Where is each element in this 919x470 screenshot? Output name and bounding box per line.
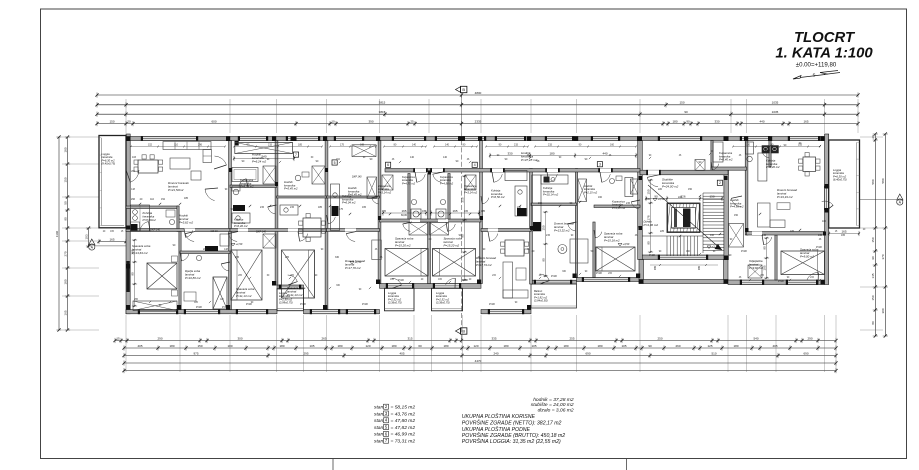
unit2 bed 1 — [147, 263, 177, 289]
svg-text:150: 150 — [709, 194, 714, 198]
unit wall x326 — [325, 141, 328, 310]
svg-text:4: 4 — [474, 163, 476, 167]
stairs landing line — [642, 235, 703, 237]
svg-text:B: B — [462, 87, 465, 92]
unit5b sofa — [503, 262, 513, 298]
svg-text:105: 105 — [798, 143, 803, 146]
svg-text:P=10,80 m2: P=10,80 m2 — [185, 276, 201, 280]
top dimension row 2 — [97, 104, 858, 106]
svg-text:225: 225 — [660, 230, 665, 233]
flag 6 — [386, 162, 391, 167]
X block near stairwell — [631, 179, 638, 194]
bedroom zone wall y228 unit2 — [126, 229, 230, 232]
svg-text:P=4,85 m2: P=4,85 m2 — [730, 205, 744, 209]
svg-text:P=90: P=90 — [741, 250, 747, 253]
flag 3 — [597, 162, 602, 167]
bedroom zone wall y228 unit4b — [327, 229, 380, 232]
svg-text:215: 215 — [290, 206, 295, 209]
elevator shaft — [667, 203, 700, 233]
svg-text:215: 215 — [268, 143, 273, 146]
outer wall top — [126, 137, 825, 141]
svg-text:220: 220 — [658, 188, 663, 191]
wardrobe X unit7 top — [235, 142, 293, 153]
svg-text:P=6,46 m2: P=6,46 m2 — [234, 224, 248, 228]
svg-text:185: 185 — [318, 206, 323, 209]
unit4 bathroom wall — [277, 196, 327, 198]
bottom wall segment 481-531 — [481, 310, 531, 314]
unit4b dining table — [303, 218, 321, 237]
svg-text:185: 185 — [481, 210, 486, 213]
svg-text:180: 180 — [63, 279, 67, 284]
svg-text:3815: 3815 — [379, 101, 386, 105]
svg-text:P=90: P=90 — [300, 303, 306, 306]
loggia 2 (unit5) — [385, 288, 415, 311]
svg-text:180: 180 — [443, 344, 448, 348]
stairs diagonal line — [648, 185, 722, 250]
unit3 bed — [231, 250, 262, 300]
svg-text:P=3,06 m2: P=3,06 m2 — [644, 223, 659, 227]
svg-text:180: 180 — [227, 344, 232, 348]
svg-text:180: 180 — [337, 344, 342, 348]
svg-text:185: 185 — [184, 197, 189, 200]
svg-text:120: 120 — [365, 344, 370, 348]
svg-text:POVRŠINE ZGRADE (BRUTTO): 450: POVRŠINE ZGRADE (BRUTTO): 450,18 m2 — [462, 432, 566, 439]
unit6m bed — [433, 249, 476, 277]
svg-text:stan: stan — [374, 439, 384, 445]
svg-text:TLOCRT: TLOCRT — [794, 30, 856, 46]
svg-text:180: 180 — [279, 344, 284, 348]
unit2 loggia door — [130, 170, 139, 182]
bedroom zone wall y228 unit3-4 — [230, 229, 327, 232]
svg-text:270: 270 — [63, 251, 67, 256]
svg-text:330: 330 — [507, 151, 512, 155]
svg-text:215: 215 — [260, 206, 265, 209]
units5-6 bedroom doors — [403, 224, 411, 231]
left inner dim loggia — [88, 228, 90, 246]
svg-text:90: 90 — [541, 258, 545, 262]
svg-text:P=15,20 m2: P=15,20 m2 — [444, 243, 460, 247]
flag 2 — [717, 180, 722, 185]
svg-text:P=6,26 m2: P=6,26 m2 — [766, 165, 780, 169]
north arrow — [793, 76, 801, 80]
mini vertical dim right of balkon — [545, 212, 547, 276]
svg-text:152: 152 — [148, 143, 153, 146]
svg-text:P=11,13 m2: P=11,13 m2 — [287, 293, 303, 297]
unit6 bathroom wall — [594, 205, 640, 208]
unit5b bedroom wall — [481, 229, 531, 232]
svg-text:= 58,15 m2: = 58,15 m2 — [391, 405, 416, 411]
partition x776 — [775, 235, 777, 280]
svg-text:20: 20 — [127, 119, 131, 123]
svg-text:P=90: P=90 — [196, 306, 202, 309]
svg-text:60: 60 — [418, 344, 422, 348]
bottom wall units5-6 high — [380, 284, 482, 289]
bottom dimension row 4 total 4470 — [124, 362, 836, 364]
flag 4 — [472, 162, 477, 167]
svg-text:296: 296 — [131, 198, 136, 201]
svg-text:P=90: P=90 — [778, 280, 784, 283]
svg-text:OKP 140: OKP 140 — [150, 229, 161, 232]
corridor doors — [417, 174, 426, 182]
unit6 circle symbol — [558, 245, 567, 254]
svg-text:+3,50: +3,50 — [658, 197, 665, 201]
svg-text:975: 975 — [193, 351, 198, 355]
svg-text:405: 405 — [137, 344, 142, 348]
svg-text:P=4,28 m2: P=4,28 m2 — [612, 206, 626, 210]
svg-text:150: 150 — [646, 189, 650, 194]
svg-text:295: 295 — [303, 351, 308, 355]
axis flag A left — [89, 239, 95, 245]
svg-text:215: 215 — [548, 143, 553, 146]
unit6m shower — [465, 175, 476, 190]
svg-text:150: 150 — [746, 143, 751, 146]
corridor south wall — [385, 169, 640, 173]
unit4b closet X vertical — [367, 177, 377, 199]
svg-text:215: 215 — [514, 143, 519, 146]
svg-text:370: 370 — [881, 254, 885, 259]
stair hall bottom wall — [639, 255, 728, 260]
unit5 shower — [382, 175, 393, 190]
unit2 wardrobe low — [133, 301, 177, 311]
svg-text:P=17,70 m2: P=17,70 m2 — [345, 266, 361, 270]
svg-text:180: 180 — [63, 147, 67, 152]
svg-text:±0.00=+119,80: ±0.00=+119,80 — [796, 62, 837, 69]
svg-text:2: 2 — [719, 181, 721, 185]
svg-text:P=4,79 m2: P=4,79 m2 — [240, 185, 254, 189]
svg-text:= 43,76 m2: = 43,76 m2 — [391, 411, 416, 417]
unit2 kitchen counter — [131, 205, 150, 231]
partition x594 — [593, 222, 595, 278]
mini dim corridor — [490, 155, 636, 157]
flag 5 — [332, 160, 337, 165]
stairwell top wall — [640, 170, 728, 175]
partition x770 top — [769, 141, 771, 168]
unit6 hall closet X — [578, 179, 587, 202]
svg-text:P=9,60 m2: P=9,60 m2 — [749, 266, 763, 270]
svg-text:335: 335 — [491, 336, 496, 340]
svg-text:= 73,31 m2: = 73,31 m2 — [391, 439, 416, 445]
svg-text:P=9,00 m2: P=9,00 m2 — [800, 254, 814, 258]
svg-text:180: 180 — [597, 344, 602, 348]
svg-text:90: 90 — [130, 272, 134, 276]
svg-text:540: 540 — [753, 336, 758, 340]
right dimension column outer — [884, 134, 886, 336]
right unit doors — [731, 198, 741, 207]
unit2 dining table — [138, 160, 158, 173]
svg-text:150: 150 — [541, 225, 545, 230]
unit2 sofa — [163, 142, 211, 150]
svg-text:185: 185 — [298, 143, 303, 146]
unit2 bathroom — [180, 251, 230, 254]
svg-text:180: 180 — [169, 344, 174, 348]
left dimension column segments — [67, 137, 69, 330]
svg-text:405: 405 — [772, 344, 777, 348]
svg-text:3815: 3815 — [379, 110, 386, 114]
bottom dimension row 2 segments — [124, 347, 836, 349]
svg-text:90: 90 — [871, 256, 875, 260]
svg-text:226: 226 — [680, 194, 685, 198]
svg-text:180: 180 — [503, 344, 508, 348]
svg-text:165: 165 — [841, 234, 846, 237]
svg-text:105: 105 — [790, 230, 795, 233]
svg-text:10: 10 — [331, 119, 335, 123]
right unit bath fixtures — [746, 142, 754, 154]
svg-text:160: 160 — [610, 143, 615, 146]
svg-text:110: 110 — [174, 143, 178, 146]
svg-text:175: 175 — [339, 208, 344, 211]
svg-text:DKP 140: DKP 140 — [256, 231, 267, 234]
right unit kitchen — [762, 145, 770, 153]
unit3 bath tub — [232, 168, 258, 182]
svg-text:265: 265 — [321, 336, 326, 340]
svg-text:90: 90 — [63, 217, 67, 221]
svg-text:stan: stan — [374, 405, 384, 411]
svg-text:stan: stan — [374, 425, 384, 431]
hall closet X — [729, 224, 744, 248]
unit3 doors — [239, 179, 246, 187]
unit3 bathroom wall — [230, 185, 277, 188]
svg-text:150: 150 — [63, 177, 67, 182]
svg-text:150: 150 — [109, 119, 114, 123]
right unit bed — [781, 251, 825, 275]
bottom dimension row 5 — [124, 370, 836, 372]
right unit living divider y231-235 — [747, 232, 825, 236]
units5-6 bathroom walls — [408, 174, 410, 220]
unit4b kitchen counter — [331, 184, 340, 231]
svg-text:105: 105 — [309, 344, 314, 348]
svg-text:P=24,00 m2: P=24,00 m2 — [662, 185, 679, 189]
elevator car — [672, 208, 696, 229]
level +3,50 mid — [618, 243, 622, 246]
mini dim row under top wall — [131, 146, 225, 148]
extension lines right — [860, 136, 883, 138]
svg-text:165: 165 — [803, 119, 808, 123]
svg-text:3: 3 — [599, 163, 601, 167]
stair door — [647, 177, 658, 187]
svg-text:215: 215 — [626, 202, 631, 205]
svg-text:(3,99x0,75): (3,99x0,75) — [279, 301, 293, 305]
svg-text:P=8,06m2: P=8,06m2 — [143, 218, 157, 222]
unit4 wc sink — [295, 175, 301, 181]
unit wall x531 — [530, 169, 533, 285]
svg-text:205: 205 — [235, 256, 240, 259]
hall wall x746 — [745, 141, 748, 236]
bottom wall above balkon — [531, 280, 577, 284]
svg-text:105: 105 — [531, 344, 536, 348]
unit2 bedroom divider x180 — [179, 232, 181, 310]
svg-text:1. KATA 1:100: 1. KATA 1:100 — [775, 46, 873, 62]
bottom wall above loggia1 — [277, 285, 304, 289]
bottom wall segment 576-640 — [577, 278, 641, 282]
svg-text:P=5,40 m2: P=5,40 m2 — [719, 158, 733, 162]
outer wall left — [126, 134, 130, 314]
unit5 bed — [385, 249, 428, 277]
svg-text:300: 300 — [237, 336, 242, 340]
unit6 bath tub — [625, 178, 633, 197]
svg-text:80,80: 80,80 — [401, 214, 408, 217]
svg-text:160: 160 — [598, 196, 603, 199]
svg-text:180: 180 — [563, 344, 568, 348]
units5-6 bedroom wall y219 — [380, 219, 482, 222]
svg-text:90: 90 — [648, 344, 652, 348]
svg-text:POVRŠINE ZGRADE (NETTO): 3: POVRŠINE ZGRADE (NETTO): 382,17 m2 — [462, 420, 562, 427]
unit2 kitchen stove dark — [131, 224, 138, 231]
loggia 1 (unit4) — [277, 289, 304, 311]
svg-text:20: 20 — [871, 135, 875, 139]
unit2 desk djecja — [184, 292, 196, 301]
svg-text:205: 205 — [130, 249, 134, 254]
stairwell wall left x640 — [638, 141, 643, 260]
top dimension row 1 total 4800 — [97, 94, 858, 96]
unit4b level mark — [350, 261, 354, 264]
mini dim under right loggia — [829, 233, 859, 235]
title block column ticks — [332, 459, 334, 470]
unit6 table — [570, 239, 588, 263]
svg-text:150: 150 — [871, 295, 875, 300]
svg-text:90: 90 — [762, 246, 766, 250]
unit wall x379 — [378, 141, 381, 284]
bathroom wall right section — [711, 167, 747, 170]
loggia 3 (unit6) — [432, 288, 463, 311]
svg-text:110: 110 — [150, 198, 154, 201]
svg-text:390: 390 — [368, 119, 373, 123]
svg-text:P=6,50 m2: P=6,50 m2 — [491, 195, 505, 199]
svg-text:580: 580 — [871, 179, 875, 184]
svg-text:165: 165 — [382, 210, 387, 213]
svg-text:POVRŠINA LOGGIA: 31,35 m2: POVRŠINA LOGGIA: 31,35 m2 (22,55 m2) — [462, 438, 561, 445]
bottom wall segment unit2-3 — [126, 310, 277, 314]
svg-text:hodnik = 37,28 m2: hodnik = 37,28 m2 — [533, 397, 574, 403]
unit2 armchair — [191, 171, 201, 180]
svg-text:165: 165 — [362, 206, 367, 209]
svg-text:150: 150 — [679, 101, 684, 105]
svg-text:580: 580 — [881, 178, 885, 183]
svg-text:125: 125 — [707, 344, 712, 348]
top wall windows — [143, 137, 196, 141]
svg-text:690: 690 — [585, 351, 590, 355]
svg-text:905: 905 — [698, 265, 701, 270]
unit3 shower — [263, 166, 276, 184]
unit wall x230 — [229, 141, 232, 310]
unit5b door — [490, 234, 498, 242]
svg-text:90: 90 — [646, 241, 650, 245]
svg-text:165: 165 — [422, 210, 427, 213]
svg-text:P=6,04 m2: P=6,04 m2 — [342, 201, 356, 205]
svg-text:255: 255 — [569, 336, 574, 340]
svg-text:110 10: 110 10 — [210, 230, 218, 233]
svg-text:P=3,14 m2: P=3,14 m2 — [464, 190, 478, 194]
svg-text:150: 150 — [197, 344, 202, 348]
svg-text:165: 165 — [464, 210, 469, 213]
svg-text:P=90: P=90 — [489, 303, 495, 306]
unit5b kitchen counter — [515, 186, 527, 216]
bottom wall right unit — [728, 280, 825, 285]
svg-text:180: 180 — [549, 151, 554, 155]
svg-text:P=2,15 m2: P=2,15 m2 — [584, 190, 598, 194]
svg-text:1035: 1035 — [772, 101, 779, 105]
svg-text:240: 240 — [493, 351, 498, 355]
svg-text:90: 90 — [460, 234, 464, 238]
unit wall x481 — [480, 141, 483, 284]
svg-text:105: 105 — [621, 344, 626, 348]
svg-text:1140: 1140 — [55, 230, 59, 237]
loggia right — [829, 140, 860, 228]
unit7 hodnik door — [215, 156, 227, 165]
bottom wall segment 303-385 — [304, 310, 380, 314]
svg-text:180: 180 — [672, 119, 677, 123]
svg-text:150: 150 — [688, 188, 693, 191]
svg-text:215: 215 — [538, 202, 543, 205]
mini dim stairwell interior — [650, 180, 652, 252]
svg-text:50: 50 — [63, 201, 67, 205]
svg-text:90: 90 — [654, 194, 658, 198]
unit4 doors — [300, 234, 308, 242]
level +1,50 left — [231, 243, 235, 246]
svg-text:P=13,32 m2: P=13,32 m2 — [554, 228, 570, 232]
svg-text:290: 290 — [157, 336, 162, 340]
svg-text:P=90: P=90 — [398, 279, 404, 282]
partition x712 bathroom — [711, 141, 713, 171]
svg-text:B: B — [462, 328, 465, 333]
svg-text:140: 140 — [410, 156, 415, 159]
svg-text:140: 140 — [445, 143, 450, 146]
unit3 kitchen counter — [232, 213, 250, 223]
svg-text:dizalo = 3,06 m2: dizalo = 3,06 m2 — [538, 407, 574, 413]
svg-text:140: 140 — [412, 143, 417, 146]
unit4 bed — [282, 250, 315, 298]
svg-text:905: 905 — [654, 265, 657, 270]
balkon door — [540, 274, 550, 281]
mini vertical dim inside unit2 — [134, 240, 136, 306]
svg-text:P=19,34 m2: P=19,34 m2 — [777, 195, 793, 199]
svg-text:103: 103 — [132, 156, 137, 159]
section line B vertical — [461, 95, 463, 133]
extension lines left — [62, 136, 99, 138]
svg-text:+3,50: +3,50 — [623, 242, 630, 246]
svg-text:P=90: P=90 — [816, 246, 822, 249]
unit2 kitchen door — [140, 222, 149, 232]
unit4 kitchen — [280, 205, 298, 215]
svg-text:2335: 2335 — [475, 119, 482, 123]
unit2 kitchen wall — [126, 206, 178, 209]
svg-text:330: 330 — [335, 256, 340, 259]
svg-text:UKUPNA PLOŠTINA KORISNE: UKUPNA PLOŠTINA KORISNE — [462, 413, 536, 420]
svg-text:140: 140 — [443, 156, 448, 159]
svg-text:P=4,75 m2: P=4,75 m2 — [402, 181, 416, 185]
svg-text:165: 165 — [841, 229, 846, 233]
svg-text:440: 440 — [602, 151, 607, 155]
extra door arcs — [268, 207, 276, 214]
unit3 closet — [263, 234, 276, 248]
svg-text:P=3,14 m2: P=3,14 m2 — [378, 190, 392, 194]
right unit dining table — [803, 157, 816, 172]
svg-text:165: 165 — [401, 209, 406, 213]
top dimension row 4 segments — [97, 123, 858, 125]
extension lines bottom — [125, 315, 127, 372]
svg-text:1035: 1035 — [772, 110, 779, 114]
right unit closet — [748, 265, 762, 278]
mini vertical dim at corridor B — [464, 176, 466, 280]
unit6m washer and wc — [436, 209, 446, 219]
svg-text:300: 300 — [881, 308, 885, 313]
svg-text:140: 140 — [762, 234, 767, 237]
svg-text:260: 260 — [675, 344, 680, 348]
bottom dimension row 3 segments — [124, 355, 836, 357]
svg-text:P=90: P=90 — [649, 254, 655, 257]
svg-text:4470: 4470 — [475, 359, 482, 363]
svg-text:5: 5 — [334, 161, 336, 165]
svg-text:165: 165 — [63, 310, 67, 315]
